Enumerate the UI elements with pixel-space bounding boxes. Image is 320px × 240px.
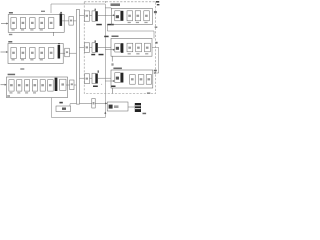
label right of R2 (155, 42, 157, 44)
box L2-2 (20, 48, 25, 59)
tick above bar row1 (95, 9, 96, 11)
labels under L3 boxes (10, 92, 37, 93)
box L2-3 (30, 48, 35, 59)
dashed outer border right section (84, 2, 155, 94)
arrowhead bottom wire into C (104, 111, 106, 113)
box L3-3 (25, 80, 30, 91)
wire L3 to outer box (66, 84, 70, 86)
row1 wire bus to box A (80, 14, 85, 16)
label above bottom box A2 (59, 102, 62, 104)
wire top bus from node above L1 to right vertical (51, 3, 105, 5)
hatched bar R3 (121, 73, 124, 83)
group L2 border (8, 44, 63, 64)
label dash right of row2 connector (99, 54, 104, 56)
arrow input into L1 (1, 23, 7, 25)
box R1-2 (127, 11, 133, 21)
wire L2 output to bus (69, 52, 76, 54)
group R1 border (111, 8, 152, 24)
box L2-4 (39, 48, 44, 59)
label above R3 input arrow (154, 70, 157, 72)
box R2-4 (145, 43, 151, 52)
wire bottom run to right trunk (52, 117, 106, 119)
bottom wide box C (107, 102, 128, 111)
wire row1 into group R1 (98, 14, 113, 16)
box L1-1 (11, 18, 16, 29)
box L3-5 (40, 80, 45, 91)
box B row2 (92, 43, 95, 53)
wire R1 bottom to R2 top right (107, 25, 154, 39)
box R3-2 (130, 75, 136, 85)
box A row1 (84, 11, 89, 21)
stub below R3 (112, 88, 114, 94)
box L3-2 (17, 80, 22, 91)
labels under R1 boxes (128, 22, 148, 23)
box L2 output (65, 48, 70, 57)
box L3-1 (9, 80, 14, 91)
box R1-3 (135, 11, 141, 21)
wire C to D (128, 106, 135, 108)
box R1-4 (144, 11, 150, 21)
stub below R2 (111, 56, 113, 61)
label above group R3 (113, 68, 122, 70)
box L3 outer output (70, 80, 74, 90)
text in box C (109, 105, 113, 109)
label dash under R1 box1 (107, 24, 114, 26)
wire box74 to bus (73, 20, 76, 22)
box R3-1 (115, 73, 121, 83)
label under R3 corner (147, 92, 150, 94)
label above group L2 (8, 41, 12, 43)
label above group R1 (111, 3, 121, 6)
group R2 border (111, 38, 152, 56)
hatched bar R1 (121, 11, 124, 21)
labels under R2 boxes (128, 53, 149, 54)
wire arrow B2 to C (95, 102, 105, 104)
label dash under row1 connector (96, 24, 102, 26)
wire A to B row1 (90, 14, 93, 16)
labels under L1 boxes (12, 29, 43, 30)
box L2-5 (49, 48, 54, 59)
wire A to B row2 (90, 47, 93, 49)
bus vertical (tall narrow rectangle) (76, 10, 79, 105)
wire L3 outer box to bus (74, 84, 76, 86)
group L1 border (8, 15, 64, 33)
box L1-2 (20, 18, 25, 29)
label mark between R2 and R3 (111, 63, 113, 65)
group R3 border (111, 70, 153, 88)
wire bus bottom to box B2 (80, 102, 92, 104)
wire drop into group L1 top (50, 4, 52, 13)
bottom box A2 (56, 106, 71, 112)
wire L3 bottom elbow down (51, 98, 53, 118)
label above group R2 (104, 36, 108, 38)
arrow trunk into R3 box1 (105, 80, 113, 82)
hatched bar row2 (96, 43, 98, 52)
box L1-4 (39, 18, 44, 29)
wire L2 bar to output box (60, 52, 65, 54)
label above group L3 (8, 74, 16, 76)
box R2-3 (136, 43, 142, 52)
box L3-4 (32, 80, 37, 91)
box A row3 (84, 74, 89, 84)
label below R1 corner (155, 26, 158, 28)
hatched bar R2 (121, 43, 124, 53)
group L3 border (7, 77, 68, 98)
box R3-4 (146, 75, 151, 85)
row3 wire bus to box A (80, 77, 85, 79)
box R1-1 (115, 11, 121, 21)
label under group L2 (20, 68, 24, 69)
row2 wire bus to box A (80, 47, 85, 49)
figure label 10 top-right (156, 1, 160, 5)
label below D (143, 113, 147, 115)
arrow input into L3 (1, 84, 5, 86)
box R2-2 (127, 43, 133, 52)
faint wire down from row3 (101, 84, 103, 85)
label dash under R3 box1 (111, 86, 116, 88)
hatched bar row1 (96, 11, 98, 21)
labels under L2 boxes (12, 59, 43, 60)
label 12 above group L1 (9, 12, 13, 14)
box L1-3 (30, 18, 35, 29)
box L1-5 (49, 18, 54, 29)
tick above bar L2 (58, 43, 60, 44)
wire R2 out right then down into R3 (152, 48, 159, 74)
box 74 (L1 output) (69, 17, 74, 26)
box A row2 (84, 43, 89, 53)
wire trunk to R1 top (105, 7, 111, 9)
label right of R1 (154, 11, 157, 13)
hatched bar L2 (58, 45, 61, 59)
wire right vertical trunk (104, 4, 106, 118)
arrow trunk into R2 box1 (105, 49, 113, 51)
hatched bar row3 (96, 74, 98, 84)
stub below L1 bottom (52, 32, 54, 36)
wire row3 toward group R3 (98, 77, 111, 79)
hatched bar L3 (55, 78, 58, 91)
box R2-1 (115, 44, 121, 53)
arrow input into L2 (1, 51, 7, 53)
wire row2 toward group R2 (98, 47, 111, 49)
box B row3 (92, 73, 95, 83)
tick above bar row2 (95, 40, 96, 42)
wire bus bottom elbow to box A2 (70, 104, 76, 106)
label dash under row2 connector (91, 54, 95, 56)
wire L1 bar to box 74 (62, 20, 69, 22)
node tick above right trunk corner (104, 1, 106, 3)
tick above bar row3 (98, 70, 99, 72)
striped element D (135, 103, 141, 112)
label dash under row3 connector (93, 86, 98, 88)
wire A to B row3 (90, 77, 93, 79)
box R3-3 (138, 75, 144, 85)
bottom narrow box B2 (92, 99, 95, 109)
box L3 inner output (60, 79, 66, 90)
tick above bar L1 (60, 12, 62, 13)
label above L1 drop wire (41, 11, 45, 12)
box L3-6 (48, 80, 54, 91)
box L2-1 (11, 48, 16, 59)
box B row1 (92, 11, 95, 21)
label under group L3 (7, 95, 10, 96)
hatched bar L1 (60, 14, 63, 26)
label under group L1 (9, 34, 12, 35)
